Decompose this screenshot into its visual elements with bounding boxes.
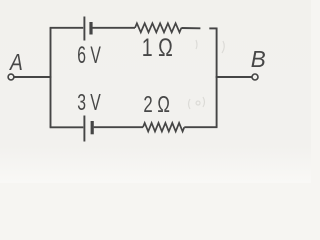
resistor R2 2ohm zigzag xyxy=(143,123,184,132)
svg-text:1 Ω: 1 Ω xyxy=(142,34,173,62)
battery 3V long plate (+) xyxy=(83,116,85,142)
wire: left bus (node A vertical) xyxy=(50,28,52,128)
svg-text:3 V: 3 V xyxy=(77,89,101,115)
background paper xyxy=(0,0,311,183)
wire: node A lead xyxy=(14,76,51,78)
battery 6V long plate (+) xyxy=(83,17,85,41)
faint print-through ghost marks xyxy=(189,40,225,109)
wire: resistor R2 to bottom-right corner xyxy=(184,126,217,128)
battery 3V short plate (-) xyxy=(91,121,94,134)
wire: top-right corner stub xyxy=(209,27,216,29)
wire: battery to resistor R1 xyxy=(93,27,136,29)
resistor R1 1ohm zigzag xyxy=(135,23,181,32)
wire: bottom-left segment bus to battery xyxy=(50,126,84,128)
wire: battery to resistor R2 xyxy=(94,126,143,128)
svg-text:B: B xyxy=(251,46,266,72)
battery 6V short plate (-) xyxy=(89,22,92,35)
wire: resistor to break xyxy=(181,27,200,29)
svg-text:6 V: 6 V xyxy=(77,42,101,69)
wire: right bus (vertical) xyxy=(216,28,218,128)
terminal B circle xyxy=(252,74,258,80)
wire: node B lead xyxy=(216,76,252,78)
svg-text:2 Ω: 2 Ω xyxy=(143,91,170,117)
terminal A circle xyxy=(8,74,14,80)
wire: top-left segment bus to battery xyxy=(50,27,84,29)
svg-text:A: A xyxy=(8,49,22,75)
